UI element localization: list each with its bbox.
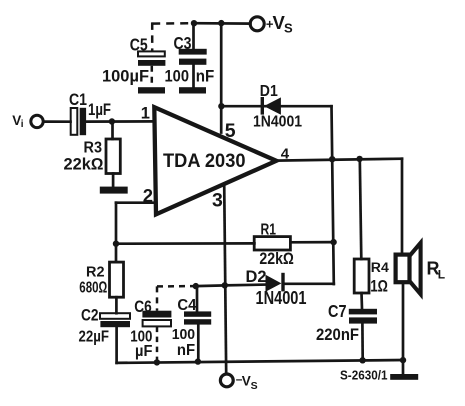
- capacitor C7 220nF: [349, 309, 377, 315]
- wire D2 anode lead: [225, 283, 266, 286]
- wire feedback to R1 left: [116, 242, 254, 245]
- svg-text:680Ω: 680Ω: [79, 279, 107, 296]
- label C1: [69, 91, 87, 109]
- svg-text:L: L: [438, 268, 445, 282]
- wire pin 2 horizontal: [116, 201, 156, 204]
- label RL: [427, 259, 446, 282]
- wire Vi to C1: [44, 120, 71, 123]
- wire dashed C6 top lead: [156, 286, 159, 310]
- label 220nF (C7): [316, 325, 359, 344]
- terminal Vi input: [31, 115, 43, 127]
- svg-text:TDA 2030: TDA 2030: [163, 151, 246, 172]
- wire -Vs net C4 node to pin3: [196, 284, 225, 287]
- svg-text:R3: R3: [84, 140, 103, 157]
- label nF (C4): [177, 342, 195, 359]
- svg-text:22kΩ: 22kΩ: [259, 250, 294, 268]
- loudspeaker RL: [396, 255, 410, 283]
- label C6: [134, 297, 152, 316]
- wire top rail dashed to C5: [152, 22, 194, 25]
- svg-text:3: 3: [212, 189, 223, 211]
- ground bar under C5: [138, 87, 165, 93]
- wire pin2 vertical down to R2: [115, 203, 118, 262]
- resistor R2 680 ohm: [110, 262, 124, 297]
- node R1 / output vertical junction: [330, 239, 336, 245]
- wire pin5 vertical from top rail: [220, 23, 223, 132]
- label 1uF (C1): [88, 100, 111, 119]
- wire R4 to C7: [360, 293, 363, 309]
- capacitor C3 100nF: [179, 49, 207, 55]
- label 100 (C4): [172, 326, 195, 343]
- svg-text:1µF: 1µF: [88, 100, 111, 119]
- wire R3 bottom lead: [112, 174, 115, 188]
- node pin3 / -Vs net junction: [222, 282, 228, 288]
- label C7: [328, 301, 347, 321]
- node D1 / pin5 vertical junction: [218, 103, 224, 109]
- wire pin3 vertical to -Vs terminal: [224, 184, 226, 374]
- label TDA 2030: [163, 151, 246, 172]
- ground bar bottom right: [390, 374, 418, 380]
- label Vi: [12, 113, 24, 130]
- label -Vs: [236, 372, 258, 392]
- ground bar under R3: [100, 187, 128, 194]
- label 1N4001 (D1): [253, 114, 302, 131]
- svg-text:C1: C1: [69, 91, 87, 109]
- label nF (C3): [196, 67, 215, 86]
- pin label 5: [225, 120, 236, 142]
- label 100 (C6): [130, 328, 152, 345]
- node C7 / ground rail: [359, 357, 365, 363]
- label 1 ohm (R4): [370, 277, 388, 295]
- svg-text:S: S: [251, 380, 258, 392]
- capacitor C4 100nF: [184, 311, 211, 316]
- svg-text:C7: C7: [328, 301, 347, 321]
- diode D1 1N4001: [261, 97, 281, 115]
- wire R2 to C2: [115, 297, 118, 313]
- wire top rail solid (+Vs net): [194, 22, 250, 25]
- label D2: [246, 268, 267, 286]
- svg-text:S-2630/1: S-2630/1: [340, 368, 388, 382]
- label D1: [260, 83, 278, 100]
- svg-text:D1: D1: [260, 83, 278, 100]
- svg-text:R2: R2: [86, 264, 105, 280]
- terminal -Vs: [220, 374, 233, 387]
- wire D2 cathode to output vertical: [285, 282, 334, 285]
- label C5: [130, 34, 148, 54]
- svg-text:C5: C5: [130, 34, 148, 54]
- wire C7 bottom lead: [361, 324, 364, 361]
- capacitor C5 100uF (electrolytic, dashed optional): [138, 51, 165, 56]
- svg-text:1N4001: 1N4001: [256, 288, 307, 308]
- svg-text:C2: C2: [81, 305, 99, 324]
- label R3: [84, 140, 103, 157]
- node C4 / ground rail: [195, 358, 201, 364]
- svg-text:nF: nF: [196, 67, 215, 86]
- label 22uF (C2): [79, 328, 110, 345]
- label R2: [86, 264, 105, 280]
- label C3: [174, 33, 192, 53]
- node input / R3 junction: [109, 118, 115, 124]
- resistor R3 22k: [106, 139, 120, 174]
- wire C4 top lead: [196, 286, 199, 311]
- label 22k ohm (R1): [259, 250, 294, 268]
- svg-text:R4: R4: [371, 260, 390, 275]
- label 100 (C3): [165, 67, 190, 86]
- svg-text:i: i: [21, 119, 24, 130]
- ground bar under C3: [179, 87, 206, 93]
- label 22k ohm (R3): [64, 156, 104, 174]
- label C4: [177, 297, 196, 314]
- terminal +Vs: [250, 17, 264, 31]
- svg-text:C6: C6: [134, 297, 152, 316]
- node C6 / ground rail: [154, 359, 160, 365]
- wire R1 right to output vertical: [290, 241, 333, 244]
- pin label 2: [143, 185, 153, 206]
- svg-text:1Ω: 1Ω: [370, 277, 388, 295]
- svg-text:D2: D2: [246, 268, 267, 286]
- node top rail / pin5 junction: [218, 20, 224, 26]
- pin label 1: [141, 104, 150, 122]
- wire C1 to pin 1: [86, 120, 154, 123]
- diode D2 1N4001: [266, 273, 285, 292]
- wire speaker top lead: [401, 159, 404, 255]
- svg-text:1: 1: [141, 104, 150, 122]
- op-amp U1 TDA2030 triangle: [154, 107, 276, 214]
- svg-text:1N4001: 1N4001: [253, 114, 302, 131]
- svg-text:S: S: [284, 20, 293, 35]
- label S-2630/1: [340, 368, 388, 382]
- wire D1 anode to +Vs vertical: [221, 105, 331, 108]
- svg-text:2: 2: [143, 185, 153, 206]
- label R1: [261, 221, 277, 238]
- pin label 3: [212, 189, 223, 211]
- node speaker / ground rail: [400, 357, 406, 363]
- svg-text:100: 100: [172, 326, 195, 343]
- wire dashed C5 bottom lead: [151, 66, 154, 88]
- svg-text:nF: nF: [177, 342, 195, 359]
- capacitor C1 1uF (electrolytic): [71, 108, 78, 135]
- svg-text:22µF: 22µF: [79, 328, 110, 345]
- wire output pin4 to speaker corner: [276, 159, 402, 161]
- svg-text:100: 100: [165, 67, 190, 86]
- wire speaker bottom lead to ground bar: [402, 282, 405, 374]
- label uF (C6): [135, 343, 153, 360]
- capacitor C2 22uF (electrolytic): [100, 313, 130, 319]
- label 680 ohm (R2): [79, 279, 107, 296]
- svg-text:220nF: 220nF: [316, 325, 359, 344]
- svg-text:22kΩ: 22kΩ: [64, 156, 104, 174]
- wire R4 top lead: [360, 159, 362, 259]
- wire right vertical D1-output-R1-D2: [332, 106, 334, 284]
- label C2: [81, 305, 99, 324]
- svg-text:C3: C3: [174, 33, 192, 53]
- resistor R1 22k feedback: [254, 237, 290, 250]
- label +Vs: [266, 12, 293, 35]
- node output / D1-R1 vertical: [329, 156, 335, 162]
- wire C2 bottom lead: [115, 327, 118, 363]
- capacitor C6 100uF (electrolytic, dashed optional): [142, 311, 171, 318]
- node feedback junction (pin2/R2/R1): [113, 241, 119, 247]
- wire C3 bottom lead: [192, 65, 195, 88]
- wire ground rail bottom: [117, 360, 403, 363]
- node top rail / C3 junction: [191, 20, 197, 26]
- svg-text:100µF: 100µF: [102, 67, 149, 86]
- wire dashed C5 top lead: [151, 22, 154, 51]
- resistor R4 1 ohm: [354, 259, 369, 293]
- pin label 4: [281, 146, 290, 163]
- wire C4 bottom lead: [197, 325, 200, 362]
- svg-text:V: V: [242, 373, 251, 388]
- label 100uF (C5): [102, 67, 149, 86]
- node C4 top / -Vs net: [193, 283, 199, 289]
- wire R3 top lead: [111, 122, 114, 140]
- wire dashed C6 to C4 node (-Vs net): [157, 285, 196, 288]
- svg-text:µF: µF: [135, 343, 153, 360]
- node output / R4 branch: [356, 156, 362, 162]
- label 1N4001 (D2): [256, 288, 307, 308]
- wire C3 top lead: [192, 23, 195, 49]
- svg-text:R1: R1: [261, 221, 277, 238]
- wire dashed C6 bottom lead: [156, 327, 159, 363]
- label R4: [371, 260, 390, 275]
- svg-text:C4: C4: [177, 297, 196, 314]
